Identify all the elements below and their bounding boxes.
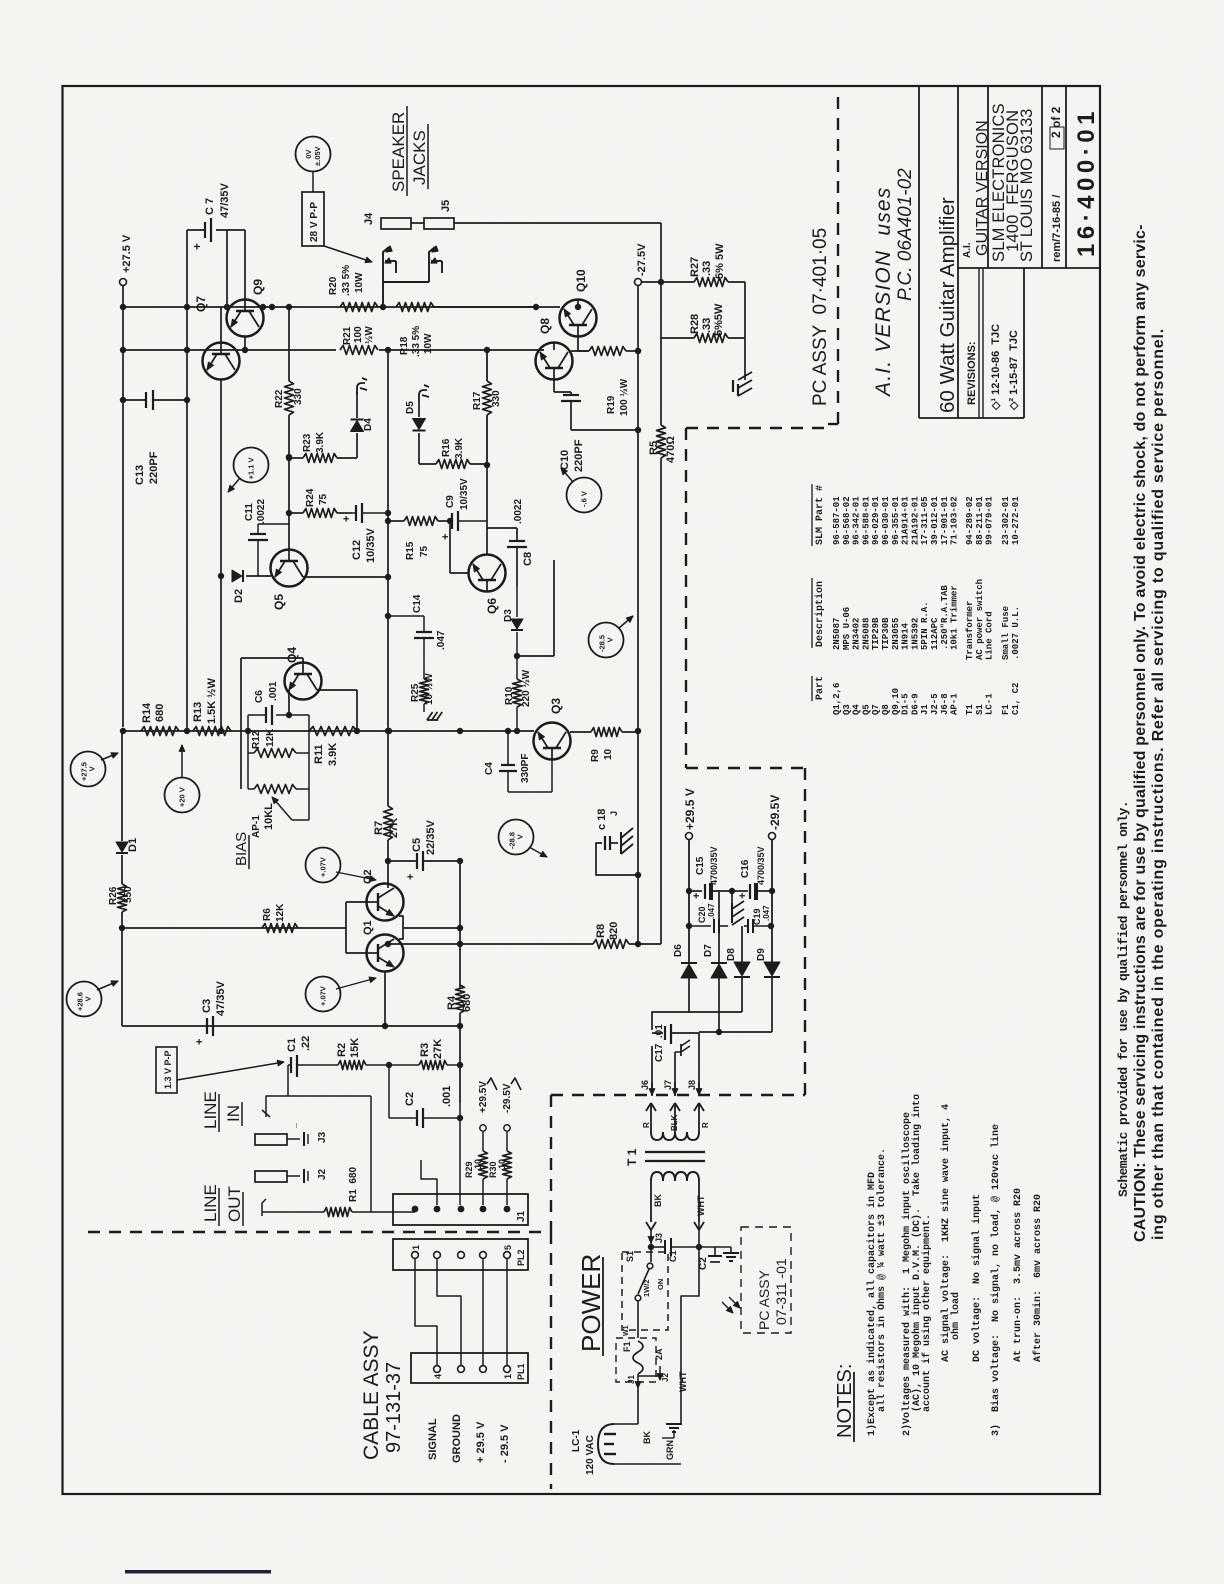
capacitor C17 xyxy=(652,1032,663,1034)
capacitor C6 xyxy=(248,714,266,716)
svg-text:R3: R3 xyxy=(419,1043,431,1057)
svg-text:J2-5: J2-5 xyxy=(930,693,940,715)
svg-text:SIGNAL: SIGNAL xyxy=(427,1418,439,1460)
svg-text:.047: .047 xyxy=(762,905,771,921)
svg-text:D9: D9 xyxy=(756,948,767,961)
resistor R14 xyxy=(141,727,179,736)
resistor R6 xyxy=(262,924,298,933)
transformer T1 core xyxy=(645,1151,705,1153)
capacitor C16 xyxy=(732,890,748,892)
svg-text:R5: R5 xyxy=(648,441,660,455)
svg-text:R26: R26 xyxy=(108,886,119,905)
svg-text:PC ASSY: PC ASSY xyxy=(756,1269,772,1330)
resistor R29 xyxy=(479,1151,488,1179)
wire PL2 pin5 to PL1 xyxy=(506,1258,508,1366)
ground R25 xyxy=(427,712,433,720)
svg-text:J6-8: J6-8 xyxy=(940,693,950,715)
wire rail -27.5 extension xyxy=(637,731,639,944)
capacitor C20 xyxy=(689,925,711,927)
wire Q10 emitter joins R19 xyxy=(578,350,589,352)
diode D4 xyxy=(356,433,358,458)
svg-text:75: 75 xyxy=(318,493,329,505)
+27.5V supply node xyxy=(120,279,127,286)
wire R20 to output node xyxy=(380,304,386,310)
svg-text:2N3402: 2N3402 xyxy=(852,618,862,650)
svg-text:TIP29B: TIP29B xyxy=(871,617,881,650)
svg-text:JACKS: JACKS xyxy=(410,130,429,185)
switch S1 xyxy=(650,1243,652,1262)
svg-text:J2: J2 xyxy=(661,1373,670,1382)
svg-text:P.C. 06A401-02: P.C. 06A401-02 xyxy=(895,168,916,301)
svg-text:R15: R15 xyxy=(405,541,416,560)
svg-text:3.9K: 3.9K xyxy=(454,437,465,459)
wire C5 to c18 node xyxy=(423,860,460,862)
capacitor C10 xyxy=(570,392,572,395)
ground power C2 xyxy=(730,1247,732,1252)
wire Q2 emitter to Q1 collector xyxy=(399,916,403,939)
svg-text:C4: C4 xyxy=(484,762,495,775)
svg-text:R25: R25 xyxy=(410,683,421,702)
resistor R19 xyxy=(571,350,589,352)
dashed box parts area top xyxy=(686,427,828,429)
svg-text:2A: 2A xyxy=(654,1348,664,1360)
svg-text:Q7: Q7 xyxy=(194,296,208,312)
svg-text:.047: .047 xyxy=(436,630,447,650)
svg-text:27K: 27K xyxy=(388,818,400,838)
svg-text:R4: R4 xyxy=(446,995,458,1010)
resistor R12 xyxy=(247,715,249,789)
wire J1 pin3 rail xyxy=(460,1103,462,1205)
svg-text:1N914: 1N914 xyxy=(901,622,911,650)
wire PL2 pin2 to PL1 xyxy=(437,1258,461,1366)
svg-text:BK: BK xyxy=(653,1194,663,1207)
svg-text:D2: D2 xyxy=(233,589,245,603)
callout -28.8V xyxy=(499,820,534,855)
wire R3 junction x460 down xyxy=(459,1065,461,1103)
transformer T1 secondary xyxy=(646,1103,651,1111)
resistor R27 xyxy=(694,278,728,287)
svg-text:+ 29.5 V: + 29.5 V xyxy=(475,1421,487,1463)
svg-text:+: + xyxy=(405,874,417,880)
wire Q7 emitter to D2 line xyxy=(220,379,222,576)
primary lead connectors xyxy=(646,1222,651,1230)
svg-text:C8: C8 xyxy=(522,552,534,566)
svg-text:J2: J2 xyxy=(317,1168,328,1180)
ground center tap xyxy=(731,891,733,907)
wire Q6 collector xyxy=(486,465,488,555)
wire R6 line xyxy=(122,927,346,929)
svg-text:C11: C11 xyxy=(244,503,255,521)
svg-text:AC power switch: AC power switch xyxy=(975,579,985,660)
resistor R22 xyxy=(288,307,290,381)
svg-text:5% 5W: 5% 5W xyxy=(714,243,726,279)
neon lamp arrows xyxy=(722,1302,733,1313)
svg-text:F1: F1 xyxy=(622,1341,632,1352)
svg-text:PL1: PL1 xyxy=(516,1363,526,1380)
svg-text:Q9,10: Q9,10 xyxy=(891,688,901,715)
svg-text:71-103-02: 71-103-02 xyxy=(950,496,960,545)
svg-text:ohm load: ohm load xyxy=(950,1292,962,1340)
svg-text:Transformer: Transformer xyxy=(965,601,975,660)
resistor R9 xyxy=(570,740,591,742)
wire Q9 emitter xyxy=(244,336,246,350)
capacitor C12 xyxy=(351,457,353,513)
terminal J7 arrow xyxy=(674,1082,676,1095)
resistor R5 xyxy=(660,338,662,425)
svg-text:TIP30B: TIP30B xyxy=(881,617,891,650)
svg-text:680: 680 xyxy=(154,704,166,722)
svg-text:R23: R23 xyxy=(302,433,313,452)
svg-text:.001: .001 xyxy=(268,681,279,701)
diode D7 xyxy=(711,964,727,978)
svg-text:PL2: PL2 xyxy=(516,1249,526,1266)
svg-text:+.07V: +.07V xyxy=(319,857,328,877)
svg-text:+20 V: +20 V xyxy=(178,787,187,807)
connector J2 output jack xyxy=(255,1171,287,1182)
wire Q10 collector from bus xyxy=(577,300,579,307)
resistor R4 xyxy=(456,985,465,1013)
wire rail B x187 xyxy=(186,229,188,231)
wire Q4 emitter to C6 node xyxy=(288,690,290,715)
svg-text:R24: R24 xyxy=(305,488,316,507)
svg-text:27K: 27K xyxy=(432,1039,444,1059)
resistor R3 xyxy=(419,1061,447,1070)
dashed box parts area bottom xyxy=(686,767,805,769)
svg-text:96-588-01: 96-588-01 xyxy=(861,496,871,545)
wire PL2 pin1 to PL1 xyxy=(415,1258,437,1366)
svg-text:rem/7-16-85 /: rem/7-16-85 / xyxy=(1051,195,1063,262)
speaker jack J4 symbol xyxy=(382,282,384,307)
svg-text:10: 10 xyxy=(473,1159,483,1169)
svg-text:all resistors in Ohms @ ¼ watt: all resistors in Ohms @ ¼ watt ±3 tolera… xyxy=(876,1148,888,1412)
svg-text:12K: 12K xyxy=(265,728,276,747)
wire R6 to Q2 base xyxy=(345,902,347,928)
svg-text:96-029-01: 96-029-01 xyxy=(871,496,881,545)
terminal J3 power xyxy=(650,1230,652,1243)
wire J1 pin5 R30 xyxy=(506,1179,508,1205)
resistor R11 xyxy=(309,727,357,736)
svg-text:AP-1: AP-1 xyxy=(251,815,262,838)
switch S1 dashed box xyxy=(622,1252,668,1330)
terminal J2 power xyxy=(638,1375,660,1377)
svg-text:+: + xyxy=(691,893,703,899)
capacitor c18 block xyxy=(596,843,638,875)
resistor R17 xyxy=(486,350,488,381)
diode D8 xyxy=(734,962,750,976)
svg-text:◇¹ 12-10-86 TJC: ◇¹ 12-10-86 TJC xyxy=(990,324,1002,411)
wire D3 to R10 xyxy=(516,632,518,679)
svg-text:5PIN R.A.: 5PIN R.A. xyxy=(920,601,930,650)
svg-text:4700/35V: 4700/35V xyxy=(709,846,719,885)
terminal J8 arrow xyxy=(698,1082,700,1095)
capacitor C2 input xyxy=(388,1065,390,1118)
resistor R1 xyxy=(262,1199,266,1216)
svg-text:R21: R21 xyxy=(342,326,353,345)
+29.5V supply terminal xyxy=(686,833,693,840)
svg-text:1.3 V P-P: 1.3 V P-P xyxy=(163,1050,173,1089)
connector PL1 xyxy=(411,1353,528,1383)
callout box 28 V P-P xyxy=(302,192,324,246)
svg-text:C1: C1 xyxy=(668,1250,678,1262)
transistor Q8 xyxy=(536,343,573,380)
svg-text:D5: D5 xyxy=(405,401,416,414)
resistor R21 xyxy=(340,346,378,355)
resistor R8 xyxy=(388,943,593,945)
svg-text:GROUND: GROUND xyxy=(451,1414,463,1463)
svg-text:Q9: Q9 xyxy=(251,279,265,295)
svg-text:220PF: 220PF xyxy=(148,451,160,484)
svg-text:+1.1 V: +1.1 V xyxy=(247,457,256,479)
capacitor C3 xyxy=(206,1018,208,1034)
svg-text:112APC: 112APC xyxy=(930,617,940,650)
bottom scan bar xyxy=(125,1570,271,1574)
svg-text:.0022: .0022 xyxy=(513,499,524,524)
wire top bus y307 xyxy=(123,306,536,308)
svg-text:D4: D4 xyxy=(363,418,374,431)
svg-text:Q4: Q4 xyxy=(285,647,299,663)
svg-text:D6: D6 xyxy=(673,944,684,957)
svg-text:C1: C1 xyxy=(286,1038,298,1052)
wire x460 rail xyxy=(459,861,461,989)
svg-text:88-211-01: 88-211-01 xyxy=(975,496,985,545)
wire -27.5 to R27/R28 xyxy=(642,281,695,283)
svg-text:C2: C2 xyxy=(698,1257,709,1270)
wire Q3 base xyxy=(533,740,535,742)
wire mid bus y731 xyxy=(123,730,534,732)
svg-text:10-272-01: 10-272-01 xyxy=(1011,496,1021,545)
svg-text:PC ASSY 07·401·05: PC ASSY 07·401·05 xyxy=(810,228,831,406)
resistor R2 xyxy=(338,1061,366,1070)
svg-text:R6: R6 xyxy=(262,908,273,921)
connector J3 input jack xyxy=(255,1134,287,1145)
svg-text:LC-1: LC-1 xyxy=(985,693,995,715)
svg-text:97-131-37: 97-131-37 xyxy=(383,1362,405,1453)
resistor R10 xyxy=(513,679,522,707)
svg-text:330: 330 xyxy=(293,388,304,405)
border frame xyxy=(63,86,1101,1494)
svg-text:J5: J5 xyxy=(440,200,452,212)
svg-text:10: 10 xyxy=(603,748,614,760)
diode D9 xyxy=(764,962,780,976)
svg-text:Q3: Q3 xyxy=(842,704,852,715)
svg-text:Q10: Q10 xyxy=(574,269,588,292)
svg-text:Q5: Q5 xyxy=(272,594,286,610)
resistor R15 xyxy=(389,520,404,522)
wire second bus y350 xyxy=(123,349,187,351)
wire +27.5 rail xyxy=(122,286,124,728)
svg-text:Schematic provided for use by: Schematic provided for use by qualified … xyxy=(1116,801,1131,1197)
svg-text:V: V xyxy=(516,834,525,839)
svg-text:SLM Part #: SLM Part # xyxy=(815,485,826,545)
svg-text:.33: .33 xyxy=(701,261,713,276)
svg-text:After 30min: 6mv across R20: After 30min: 6mv across R20 xyxy=(1032,1194,1044,1362)
callout +1.1V xyxy=(234,448,269,483)
diode D6 xyxy=(681,964,697,978)
wire Q4 base loop xyxy=(302,658,304,663)
svg-text:J: J xyxy=(609,811,619,816)
svg-text:C6: C6 xyxy=(254,690,265,703)
svg-text:LINE: LINE xyxy=(201,1184,220,1222)
svg-text:Q7: Q7 xyxy=(871,704,881,715)
svg-text:NOTES:: NOTES: xyxy=(834,1364,856,1438)
svg-text:S1: S1 xyxy=(625,1251,635,1262)
connector J1 xyxy=(393,1194,528,1225)
svg-text:07-311 -01: 07-311 -01 xyxy=(773,1258,789,1325)
dashed separator right of main board xyxy=(837,97,839,424)
label 1.3V P-P box xyxy=(156,1047,177,1093)
callout -.6V xyxy=(567,478,602,513)
terminal J1 power xyxy=(637,1374,639,1388)
svg-text:.22: .22 xyxy=(300,1036,312,1051)
resistor R16 xyxy=(419,463,436,465)
wire left rail lower xyxy=(121,928,123,1026)
wire callout to box xyxy=(312,172,314,193)
svg-text:22/35V: 22/35V xyxy=(425,819,437,855)
diode D2 xyxy=(218,573,224,579)
svg-text:D1: D1 xyxy=(127,838,139,852)
svg-text:+: + xyxy=(194,1039,206,1045)
svg-text:C13: C13 xyxy=(134,465,146,485)
wire input jack switch line xyxy=(287,1065,289,1096)
transistor Q1 xyxy=(367,935,404,972)
wire C7 left drop xyxy=(186,230,188,350)
svg-text:- 29.5 V: - 29.5 V xyxy=(499,1424,511,1463)
svg-text:10: 10 xyxy=(497,1159,507,1169)
resistor R20 xyxy=(340,303,378,312)
svg-text:GUITAR VERSION: GUITAR VERSION xyxy=(974,120,991,256)
capacitor C2 power xyxy=(714,1247,716,1256)
svg-text:-29.5V: -29.5V xyxy=(502,1083,513,1113)
svg-text:R: R xyxy=(701,1122,710,1128)
svg-text:Q2: Q2 xyxy=(362,869,374,884)
transistor Q4 xyxy=(285,663,322,700)
svg-text:C12: C12 xyxy=(351,540,363,560)
svg-text:60 Watt Guitar Amplifier: 60 Watt Guitar Amplifier xyxy=(936,197,959,413)
capacitor C1 xyxy=(288,1064,291,1066)
svg-text:J1: J1 xyxy=(516,1210,527,1222)
wire Q6 emitter xyxy=(505,580,517,582)
svg-text:1.5K ½W: 1.5K ½W xyxy=(206,678,218,724)
wire PL2 pin4 to PL1 xyxy=(482,1258,484,1366)
svg-text:J7: J7 xyxy=(663,1080,673,1090)
capacitor C14 xyxy=(423,628,425,656)
svg-text:5%5W: 5%5W xyxy=(713,303,725,336)
svg-text:C9: C9 xyxy=(445,495,456,508)
svg-text:Q6: Q6 xyxy=(485,598,499,614)
svg-text:17-901-01: 17-901-01 xyxy=(940,496,950,545)
svg-text:POWER: POWER xyxy=(576,1254,606,1352)
svg-text:Small Fuse: Small Fuse xyxy=(1001,606,1011,660)
svg-text:AP-1: AP-1 xyxy=(950,693,960,715)
svg-text:C16: C16 xyxy=(740,859,751,878)
svg-text:+29.5V: +29.5V xyxy=(478,1081,489,1113)
svg-text:15K: 15K xyxy=(349,1038,361,1058)
callout +28.6V xyxy=(67,982,102,1017)
svg-text:±.05V: ±.05V xyxy=(313,146,322,166)
wire Q7 collector xyxy=(220,307,222,342)
svg-text:10W: 10W xyxy=(354,272,365,293)
wire center rail x388 xyxy=(387,350,389,731)
svg-text:2N5088: 2N5088 xyxy=(861,618,871,650)
callout +27.5 left xyxy=(71,752,106,787)
svg-text:R20: R20 xyxy=(328,276,339,295)
svg-text:J6: J6 xyxy=(640,1080,650,1090)
svg-text:-27.5V: -27.5V xyxy=(636,243,648,276)
resistor R24 xyxy=(289,512,303,514)
svg-text:96-587-01: 96-587-01 xyxy=(832,496,842,545)
capacitor C5 xyxy=(388,860,417,862)
svg-text:D8: D8 xyxy=(726,948,737,961)
capacitor C1 power xyxy=(650,1243,652,1247)
svg-text:680: 680 xyxy=(461,994,473,1012)
wire D2 to Q5 base xyxy=(246,575,271,577)
transistor Q9 xyxy=(227,300,264,337)
arrow 1.3V to C1 xyxy=(177,1062,284,1080)
resistor R23 xyxy=(289,457,303,459)
svg-text:C19: C19 xyxy=(752,908,762,925)
svg-text:J1: J1 xyxy=(920,704,930,715)
svg-text:120 VAC: 120 VAC xyxy=(585,1435,596,1475)
svg-text:ing other than that contained: ing other than that contained in the ope… xyxy=(1150,328,1167,1240)
svg-text:R7: R7 xyxy=(373,821,385,835)
dashed line power supply top xyxy=(551,1094,805,1096)
svg-text:WHT: WHT xyxy=(696,1195,706,1216)
wire rail junctions xyxy=(120,304,126,310)
svg-text:1: 1 xyxy=(411,1245,421,1250)
svg-text:Q4: Q4 xyxy=(852,704,862,715)
svg-text:12K: 12K xyxy=(275,903,286,922)
svg-text:C17 .01: C17 .01 xyxy=(654,1024,665,1062)
svg-text:R11: R11 xyxy=(313,744,325,764)
svg-text:Q1,2,6: Q1,2,6 xyxy=(832,683,842,715)
svg-text:23-302-01: 23-302-01 xyxy=(1001,496,1011,545)
svg-text:J1: J1 xyxy=(627,1375,636,1384)
svg-text:At trun-on: 3.5mv across R20: At trun-on: 3.5mv across R20 xyxy=(1013,1188,1024,1362)
dashed box PC ASSY 07-311-01 xyxy=(741,1227,791,1333)
svg-text:C15: C15 xyxy=(695,856,706,875)
svg-text:1N5392: 1N5392 xyxy=(910,618,920,650)
wire J1 pin2 stub xyxy=(421,1160,437,1205)
wire to J6 xyxy=(652,1012,689,1030)
svg-text:2N3055: 2N3055 xyxy=(891,618,901,650)
svg-text:S1: S1 xyxy=(975,704,985,715)
svg-text:.0027 U.L.: .0027 U.L. xyxy=(1011,606,1021,660)
svg-text:Q8: Q8 xyxy=(881,704,891,715)
svg-text:330: 330 xyxy=(491,390,502,407)
svg-text:T1: T1 xyxy=(965,704,975,715)
svg-text:GRN: GRN xyxy=(665,1440,675,1460)
svg-text:ON: ON xyxy=(656,1279,665,1290)
svg-text:220 ½W: 220 ½W xyxy=(521,669,532,707)
callout -28.5V xyxy=(589,623,624,658)
svg-text:100: 100 xyxy=(353,326,364,343)
wire bridge lower joins xyxy=(688,978,690,1012)
resistor R25 xyxy=(420,679,429,704)
transistor Q2 xyxy=(367,884,404,921)
svg-text:+.07V: +.07V xyxy=(319,986,328,1006)
wire J1 pin4 R29 xyxy=(482,1179,484,1205)
wire loop x227 xyxy=(226,230,228,307)
transistor Q10 xyxy=(560,300,597,337)
capacitor C15 xyxy=(689,890,702,892)
fuse F1 dashed box xyxy=(616,1338,656,1382)
svg-text:10k1 Trimmer: 10k1 Trimmer xyxy=(950,585,960,650)
svg-text:V: V xyxy=(606,637,615,642)
diode D1 xyxy=(116,842,128,852)
capacitor C11 xyxy=(257,531,259,545)
svg-text:C1, C2: C1, C2 xyxy=(1011,683,1021,715)
svg-text:2N5087: 2N5087 xyxy=(832,618,842,650)
